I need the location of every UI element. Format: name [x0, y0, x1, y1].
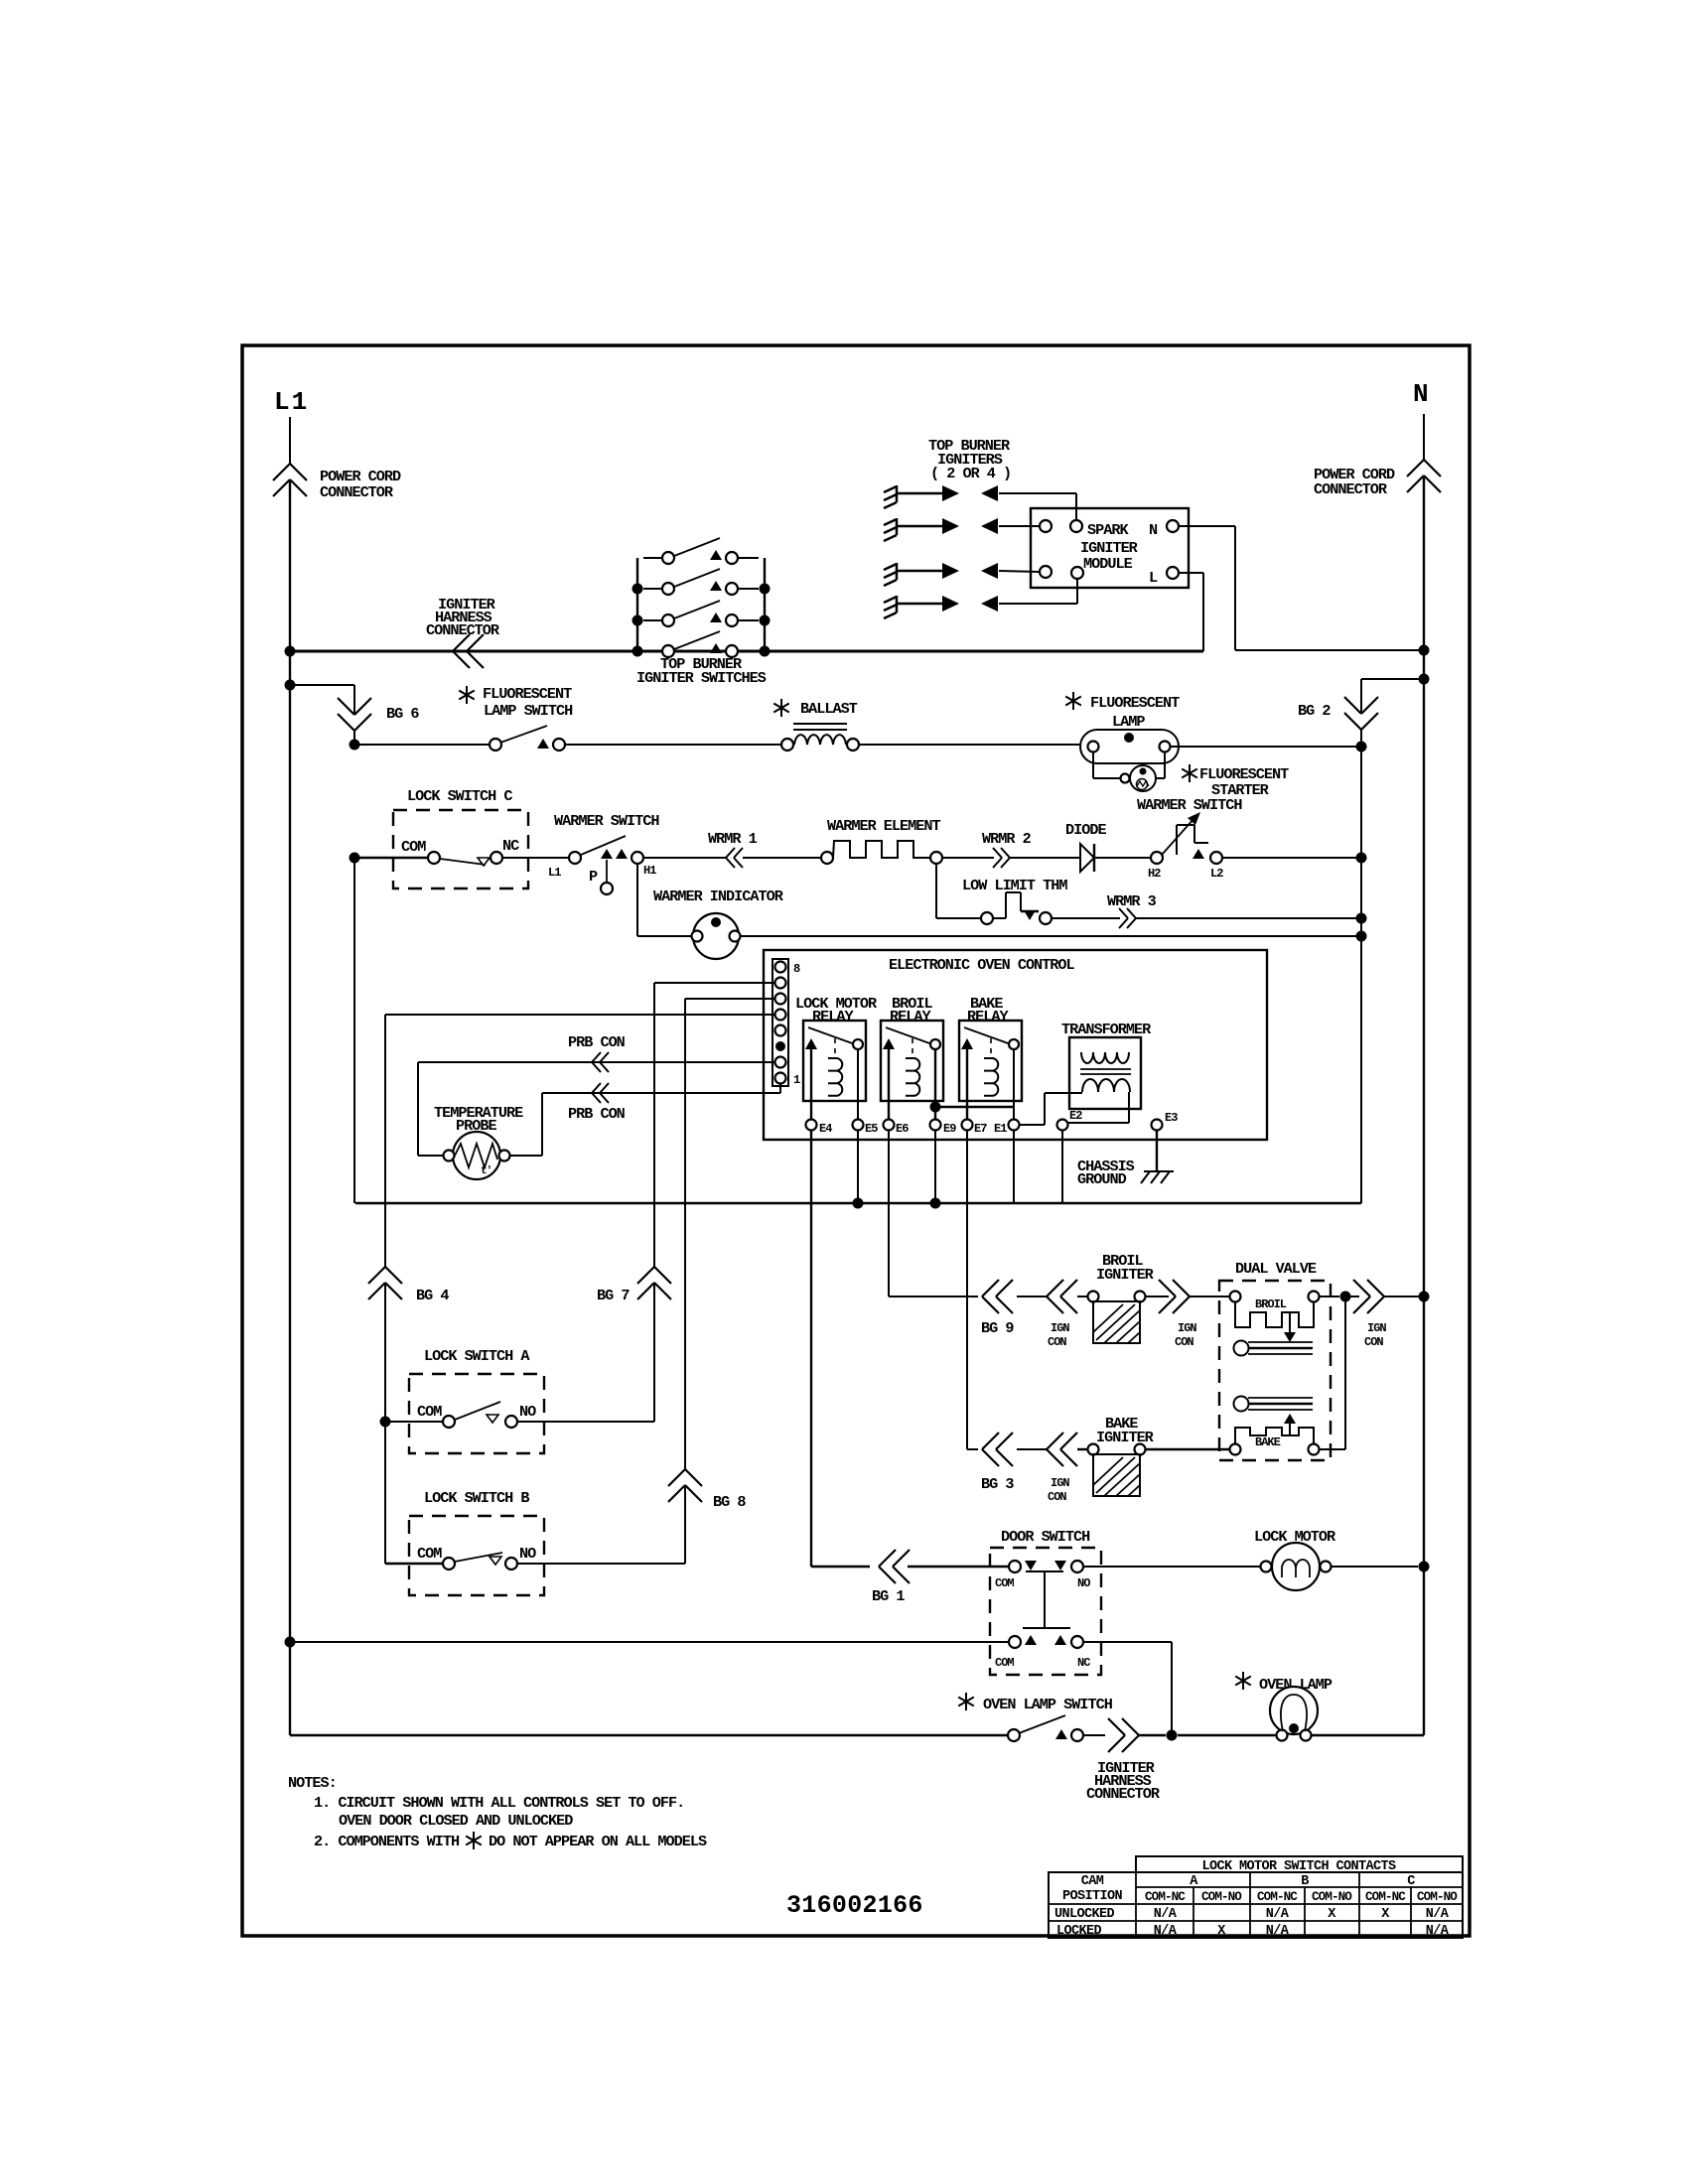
- label oven lamp: [1235, 1672, 1333, 1694]
- fluorescent starter: [1093, 752, 1165, 791]
- svg-text:CAM: CAM: [1081, 1874, 1104, 1889]
- wire E9 to N bus: [930, 1131, 941, 1209]
- svg-text:E5: E5: [865, 1122, 878, 1136]
- svg-text:CON: CON: [1048, 1335, 1066, 1349]
- wire indicator to N collector: [741, 931, 1367, 942]
- wire L1 rail bottom to oven lamp switch: [290, 1734, 1008, 1736]
- svg-text:CON: CON: [1048, 1490, 1066, 1504]
- svg-text:LOCK SWITCH A: LOCK SWITCH A: [424, 1347, 530, 1365]
- wire H1 down to warmer indicator: [637, 864, 692, 936]
- dual valve broil outlet: [1234, 1341, 1314, 1356]
- svg-text:LOCKED: LOCKED: [1056, 1924, 1102, 1939]
- wire strip pin7 to BG7 rail: [654, 983, 774, 1422]
- svg-text:WARMER INDICATOR: WARMER INDICATOR: [653, 887, 784, 905]
- svg-text:DOOR SWITCH: DOOR SWITCH: [1001, 1528, 1090, 1546]
- svg-text:IGNITER: IGNITER: [1096, 1266, 1155, 1284]
- wire element junction down to low limit: [936, 864, 981, 918]
- wire low limit to WRMR3: [1052, 917, 1120, 919]
- svg-text:BAKE: BAKE: [1255, 1435, 1281, 1449]
- fluorescent lamp: [1080, 730, 1179, 763]
- wire E6 down to BG9: [889, 1131, 978, 1297]
- wire WRMR3 to N collector: [1136, 913, 1367, 924]
- wire N right vertical rail: [1423, 414, 1425, 1735]
- door switch mechanical link: [1023, 1571, 1070, 1628]
- ballast (coil): [781, 724, 1079, 751]
- svg-text:UNLOCKED: UNLOCKED: [1054, 1907, 1115, 1922]
- label BG 3: [981, 1475, 1014, 1493]
- svg-text:COM-NO: COM-NO: [1417, 1890, 1458, 1904]
- wire E7 down to BG3: [967, 1131, 978, 1449]
- svg-text:GROUND: GROUND: [1077, 1170, 1127, 1188]
- svg-text:WARMER SWITCH: WARMER SWITCH: [554, 812, 659, 830]
- wire lock C COM drop to N bus: [353, 858, 355, 1203]
- label BG 1: [872, 1587, 905, 1605]
- connector BG 7: [637, 1267, 671, 1299]
- warmer indicator lamp: [692, 913, 741, 959]
- connector IGN CON broil-right: [1146, 1280, 1190, 1313]
- label IGN CON valve-right: [1364, 1321, 1386, 1349]
- svg-text:ELECTRONIC OVEN CONTROL: ELECTRONIC OVEN CONTROL: [889, 956, 1075, 974]
- svg-text:E1: E1: [994, 1122, 1007, 1136]
- broil relay K2: [881, 1021, 943, 1101]
- wire connector to junction: [1139, 1730, 1277, 1741]
- svg-text:COM: COM: [417, 1545, 442, 1563]
- connector BG 1: [879, 1550, 910, 1583]
- wire L2 to N collector: [1222, 853, 1367, 864]
- wire lamp to BG2 node: [1171, 746, 1361, 748]
- lock switch C enclosure: [393, 810, 528, 888]
- svg-text:2. COMPONENTS WITH: 2. COMPONENTS WITH: [314, 1833, 460, 1850]
- connector BG 3: [982, 1433, 1013, 1466]
- label BG 6: [386, 705, 419, 723]
- svg-text:LOCK SWITCH B: LOCK SWITCH B: [424, 1489, 529, 1507]
- wire BG2 down to N collector: [1356, 730, 1367, 1203]
- svg-text:N/A: N/A: [1426, 1907, 1450, 1922]
- svg-text:L1: L1: [548, 866, 561, 880]
- wire E4 down to BG1: [811, 1131, 870, 1567]
- label dual valve: [1235, 1260, 1317, 1278]
- connector BG 2: [1344, 697, 1378, 730]
- lock switch C contacts: [350, 837, 570, 866]
- svg-text:BG 4: BG 4: [416, 1287, 449, 1304]
- top burner igniter electrode y=575: [884, 563, 897, 586]
- label lock motor: [1254, 1528, 1336, 1546]
- svg-text:P: P: [589, 868, 598, 886]
- warmer element (resistive): [821, 841, 942, 864]
- svg-text:CONNECTOR: CONNECTOR: [426, 621, 500, 639]
- svg-text:( 2 OR 4 ): ( 2 OR 4 ): [930, 465, 1011, 482]
- lock switch A contacts: [380, 1402, 655, 1428]
- wire H1 to WRMR1: [643, 857, 726, 859]
- wire module L pin to L1 bus: [1179, 573, 1203, 651]
- label low limit thm: [962, 877, 1067, 894]
- svg-text:BROIL: BROIL: [1255, 1297, 1287, 1311]
- label fluorescent lamp switch: [459, 685, 573, 720]
- bake relay K3: [959, 1021, 1022, 1101]
- wire N rail to BG2: [1361, 674, 1430, 715]
- svg-text:PRB CON: PRB CON: [568, 1033, 626, 1051]
- wire oven lamp to N rail corner: [1312, 1734, 1424, 1736]
- label IGN CON broil-right: [1175, 1321, 1196, 1349]
- wire E1 to transformer secondary: [1020, 1093, 1082, 1125]
- svg-text:WARMER ELEMENT: WARMER ELEMENT: [827, 817, 940, 835]
- temperature probe RT1: [444, 1132, 510, 1179]
- connector PRB CON upper: [592, 1052, 609, 1072]
- svg-text:BALLAST: BALLAST: [800, 700, 858, 718]
- node BG6 junction: [350, 740, 360, 751]
- svg-text:N/A: N/A: [1154, 1907, 1178, 1922]
- lock motor M1: [1261, 1543, 1332, 1590]
- label warmer indicator: [653, 887, 784, 905]
- svg-text:1. CIRCUIT SHOWN WITH ALL CONT: 1. CIRCUIT SHOWN WITH ALL CONTROLS SET T…: [314, 1794, 684, 1812]
- spark igniter module U1: [1031, 508, 1189, 588]
- wire igniter row2 to module: [999, 525, 1040, 527]
- label warmer switch right: [1137, 796, 1242, 814]
- svg-text:N: N: [1149, 521, 1158, 539]
- label IGN CON bake-left: [1048, 1476, 1069, 1504]
- label IGN CON broil-left: [1048, 1321, 1069, 1349]
- svg-text:CONNECTOR: CONNECTOR: [1314, 480, 1388, 498]
- label BG 7: [597, 1287, 630, 1304]
- label oven lamp switch: [958, 1693, 1113, 1713]
- label bake relay: [967, 995, 1009, 1025]
- label top burner igniters: [928, 437, 1011, 482]
- dual valve enclosure: [1219, 1281, 1331, 1460]
- svg-text:OVEN DOOR CLOSED AND UNLOCKED: OVEN DOOR CLOSED AND UNLOCKED: [339, 1812, 573, 1830]
- door switch lower contacts (COM/NC): [995, 1635, 1090, 1670]
- label door switch: [1001, 1528, 1090, 1546]
- svg-text:IGNITER SWITCHES: IGNITER SWITCHES: [636, 669, 767, 687]
- wire E1 to N bus: [1013, 1131, 1015, 1203]
- label transformer: [1061, 1021, 1152, 1038]
- lock switch A enclosure: [409, 1374, 544, 1453]
- wire lock motor to N rail: [1332, 1562, 1430, 1572]
- svg-text:RELAY: RELAY: [967, 1008, 1009, 1025]
- wire igniter row3 to module: [999, 571, 1040, 572]
- svg-text:COM: COM: [417, 1403, 442, 1421]
- label lock switch B: [424, 1489, 529, 1507]
- bake igniter element: [1088, 1444, 1146, 1497]
- svg-text:MODULE: MODULE: [1083, 555, 1133, 573]
- svg-text:L: L: [1149, 569, 1158, 587]
- svg-text:WRMR 2: WRMR 2: [982, 830, 1032, 848]
- svg-text:NC: NC: [502, 837, 519, 855]
- wire strip pin1 to PRB CON (lower): [509, 1084, 780, 1156]
- connector BG 6: [338, 698, 371, 731]
- wire bake igniter to dual valve: [1146, 1448, 1229, 1450]
- svg-text:N/A: N/A: [1266, 1924, 1290, 1939]
- wire E2 to N bus: [1061, 1131, 1063, 1203]
- svg-text:WRMR 1: WRMR 1: [708, 830, 758, 848]
- svg-text:BG 2: BG 2: [1298, 702, 1331, 720]
- svg-text:BG 8: BG 8: [713, 1493, 746, 1511]
- svg-text:WARMER SWITCH: WARMER SWITCH: [1137, 796, 1242, 814]
- svg-text:COM: COM: [995, 1576, 1014, 1590]
- wire module N pin to N rail: [1179, 526, 1430, 656]
- top burner igniter spark gap y=608: [897, 596, 998, 612]
- svg-text:LOCK SWITCH C: LOCK SWITCH C: [407, 787, 512, 805]
- svg-text:L1: L1: [274, 387, 309, 417]
- label BG 4: [416, 1287, 449, 1304]
- svg-text:H2: H2: [1148, 867, 1161, 881]
- label PRB CON upper: [568, 1033, 626, 1051]
- svg-text:COM-NC: COM-NC: [1145, 1890, 1186, 1904]
- svg-text:1: 1: [793, 1073, 800, 1087]
- svg-text:FLUORESCENT: FLUORESCENT: [483, 685, 572, 703]
- label WRMR 3: [1107, 892, 1157, 910]
- fluorescent lamp switch S1: [354, 726, 781, 751]
- label broil relay: [890, 995, 932, 1025]
- lock motor switch contacts table: [1049, 1856, 1463, 1939]
- svg-text:H1: H1: [643, 864, 656, 878]
- connector IGN CON valve-right: [1353, 1280, 1384, 1313]
- power cord connector (N): [1407, 460, 1441, 492]
- label ballast: [773, 699, 857, 718]
- label WRMR 1: [708, 830, 758, 848]
- label top burner igniter switches: [636, 655, 767, 687]
- top burner igniter spark gap y=575: [897, 563, 998, 579]
- label igniter harness connector bottom: [1086, 1759, 1161, 1803]
- terminal E7: [962, 1101, 988, 1136]
- door switch enclosure: [990, 1548, 1101, 1675]
- low limit thermostat: [981, 892, 1052, 924]
- connector BG 9: [982, 1280, 1013, 1313]
- wire door switch NO to lock motor: [1083, 1566, 1260, 1568]
- label bake igniter: [1096, 1415, 1155, 1446]
- svg-text:DUAL VALVE: DUAL VALVE: [1235, 1260, 1317, 1278]
- wire strip pin2 to PRB CON (upper): [418, 1062, 774, 1156]
- svg-text:N/A: N/A: [1154, 1924, 1178, 1939]
- svg-text:E4: E4: [819, 1122, 832, 1136]
- connector WRMR 2: [993, 848, 1010, 868]
- label igniter harness connector top: [426, 596, 500, 639]
- svg-text:SPARK: SPARK: [1087, 521, 1129, 539]
- label power cord connector right: [1314, 466, 1395, 498]
- label lock switch C: [407, 787, 512, 805]
- wire L1 rail to door switch lower COM: [285, 1637, 1010, 1648]
- svg-text:8: 8: [793, 962, 800, 976]
- svg-text:IGN: IGN: [1051, 1321, 1069, 1335]
- lock switch B enclosure: [409, 1516, 544, 1595]
- svg-text:IGN: IGN: [1178, 1321, 1196, 1335]
- svg-text:BG 6: BG 6: [386, 705, 419, 723]
- top burner igniter electrode y=530: [884, 518, 897, 541]
- svg-text:FLUORESCENT: FLUORESCENT: [1090, 694, 1180, 712]
- electronic oven control box: [764, 950, 1267, 1140]
- label lock switch A: [424, 1347, 530, 1365]
- svg-text:BG 3: BG 3: [981, 1475, 1014, 1493]
- connector WRMR 3: [1119, 908, 1136, 928]
- svg-text:NO: NO: [1077, 1576, 1090, 1590]
- svg-text:E2: E2: [1069, 1109, 1082, 1123]
- connector IGN CON bake-left: [1047, 1433, 1077, 1466]
- svg-text:PROBE: PROBE: [456, 1117, 496, 1135]
- label warmer switch left: [554, 812, 659, 830]
- label BG 8: [713, 1493, 746, 1511]
- wire to broil igniter: [1017, 1296, 1088, 1297]
- svg-text:POSITION: POSITION: [1062, 1889, 1123, 1904]
- terminal E1: [994, 1049, 1020, 1136]
- svg-text:t': t': [481, 1165, 491, 1177]
- svg-text:N: N: [1413, 379, 1430, 409]
- svg-text:E3: E3: [1165, 1111, 1178, 1125]
- connector PRB CON lower: [592, 1083, 609, 1103]
- svg-text:BG 7: BG 7: [597, 1287, 630, 1304]
- svg-text:COM: COM: [995, 1656, 1014, 1670]
- connector BG 4: [368, 1267, 402, 1299]
- warmer switch (L1/P/H1): [548, 836, 656, 894]
- label fluorescent starter: [1182, 764, 1289, 799]
- node L1 label: [274, 387, 309, 417]
- svg-text:RELAY: RELAY: [890, 1008, 931, 1025]
- wire door switch NC drop: [1083, 1642, 1172, 1735]
- svg-text:CON: CON: [1175, 1335, 1193, 1349]
- igniter harness connector (top): [453, 634, 484, 668]
- label BG 9: [981, 1319, 1014, 1337]
- wire L1 left vertical rail: [289, 417, 291, 1735]
- terminal E5: [853, 1049, 879, 1136]
- transformer T1: [1069, 1037, 1141, 1109]
- svg-text:316002166: 316002166: [786, 1891, 923, 1920]
- label lock motor relay: [795, 995, 878, 1025]
- svg-text:COM-NO: COM-NO: [1312, 1890, 1352, 1904]
- label broil igniter: [1096, 1252, 1155, 1284]
- terminal E2 and secondary return: [1057, 1092, 1130, 1131]
- EOC connector strip P1: [772, 959, 800, 1087]
- svg-text:COM: COM: [401, 838, 426, 856]
- svg-text:LAMP SWITCH: LAMP SWITCH: [484, 702, 573, 720]
- svg-text:TRANSFORMER: TRANSFORMER: [1061, 1021, 1152, 1038]
- power cord connector (L1): [273, 464, 307, 496]
- svg-text:COM-NO: COM-NO: [1201, 1890, 1242, 1904]
- svg-text:NC: NC: [1077, 1656, 1090, 1670]
- node N label: [1413, 379, 1430, 409]
- label temperature probe: [434, 1104, 523, 1135]
- wire to bake igniter: [1017, 1448, 1088, 1450]
- svg-text:NOTES:: NOTES:: [288, 1774, 337, 1792]
- label PRB CON lower: [568, 1105, 626, 1123]
- terminal E6: [884, 1101, 910, 1136]
- svg-text:WRMR 3: WRMR 3: [1107, 892, 1157, 910]
- svg-text:BG 9: BG 9: [981, 1319, 1014, 1337]
- terminal E9 and broil contact link: [930, 1049, 1015, 1136]
- svg-text:OVEN LAMP SWITCH: OVEN LAMP SWITCH: [983, 1696, 1113, 1713]
- svg-text:PRB CON: PRB CON: [568, 1105, 626, 1123]
- top burner igniter spark gap y=497: [897, 485, 998, 501]
- svg-text:NO: NO: [519, 1403, 536, 1421]
- dual valve bake coil: [1230, 1428, 1320, 1455]
- connector WRMR 1: [726, 848, 743, 868]
- svg-text:CON: CON: [1364, 1335, 1383, 1349]
- wire strip pin5 to lock switch rail: [385, 1015, 774, 1564]
- diode D1: [1080, 844, 1151, 872]
- label fluorescent lamp: [1065, 692, 1180, 731]
- svg-text:B: B: [1301, 1874, 1309, 1889]
- svg-text:BG 1: BG 1: [872, 1587, 905, 1605]
- svg-text:E7: E7: [974, 1122, 987, 1136]
- part number 316002166: [786, 1891, 923, 1920]
- svg-text:DO NOT APPEAR ON ALL MODELS: DO NOT APPEAR ON ALL MODELS: [489, 1833, 707, 1850]
- wire BG6 branch from L1 rail: [285, 680, 355, 746]
- notes text: [288, 1774, 707, 1850]
- wire IGN CON to dual valve broil: [1190, 1296, 1229, 1297]
- svg-text:COM-NC: COM-NC: [1257, 1890, 1298, 1904]
- svg-text:NO: NO: [519, 1545, 536, 1563]
- svg-text:DIODE: DIODE: [1065, 821, 1106, 839]
- chassis ground symbol: [1141, 1131, 1174, 1183]
- wire top L1 bus: [285, 646, 1204, 657]
- wire N return bus: [355, 1202, 1361, 1204]
- label electronic oven control: [889, 956, 1075, 974]
- connector IGN CON broil-left: [1047, 1280, 1077, 1313]
- top burner igniter switches bank: [632, 538, 771, 657]
- wire element to WRMR2: [942, 857, 994, 859]
- svg-text:E6: E6: [896, 1122, 909, 1136]
- connector BG 8: [668, 1469, 702, 1502]
- svg-text:L2: L2: [1210, 867, 1223, 881]
- igniter harness connector (bottom): [1108, 1718, 1139, 1752]
- svg-text:N/A: N/A: [1426, 1924, 1450, 1939]
- lock switch B contacts: [385, 1545, 685, 1570]
- svg-text:CONNECTOR: CONNECTOR: [320, 483, 394, 501]
- svg-text:IGNITER: IGNITER: [1096, 1429, 1155, 1446]
- dual valve broil coil: [1230, 1292, 1320, 1343]
- warmer switch right (thermostat H2/L2): [1148, 812, 1223, 881]
- top burner igniter electrode y=608: [884, 596, 897, 618]
- lock motor relay K1: [803, 1021, 866, 1101]
- top burner igniter electrode y=497: [884, 485, 897, 508]
- wire WRMR2 to diode: [1010, 857, 1079, 859]
- wire valve return to N rail: [1384, 1292, 1430, 1302]
- oven lamp LP1: [1270, 1687, 1318, 1741]
- wire WRMR1 to warmer element: [743, 857, 821, 859]
- terminal E3: [1152, 1111, 1179, 1131]
- top burner igniter spark gap y=530: [897, 518, 998, 534]
- svg-text:IGN: IGN: [1051, 1476, 1069, 1490]
- terminal E4: [806, 1101, 833, 1136]
- broil igniter element: [1088, 1292, 1146, 1344]
- wire dual valve returns: [1320, 1292, 1359, 1450]
- wire igniter row4 to module: [999, 579, 1077, 604]
- svg-text:E9: E9: [943, 1122, 956, 1136]
- page border frame: [242, 345, 1470, 1936]
- svg-text:LAMP: LAMP: [1112, 713, 1145, 731]
- svg-text:IGN: IGN: [1367, 1321, 1386, 1335]
- svg-text:COM-NC: COM-NC: [1365, 1890, 1406, 1904]
- label BG 2: [1298, 702, 1331, 720]
- label WRMR 2: [982, 830, 1032, 848]
- svg-text:RELAY: RELAY: [812, 1008, 854, 1025]
- dual valve bake outlet: [1234, 1397, 1314, 1436]
- wire igniter row1 to module: [999, 493, 1076, 520]
- svg-text:C: C: [1407, 1874, 1415, 1889]
- label diode: [1065, 821, 1106, 839]
- wire E5 to N bus: [853, 1131, 864, 1209]
- svg-text:N/A: N/A: [1266, 1907, 1290, 1922]
- door switch upper contacts (COM/NO): [908, 1561, 1090, 1590]
- svg-text:CONNECTOR: CONNECTOR: [1086, 1785, 1161, 1803]
- wire strip pin6 to BG8 rail: [685, 999, 774, 1564]
- label power cord connector left: [320, 468, 401, 501]
- oven lamp switch S2: [1008, 1715, 1105, 1741]
- svg-text:LOW LIMIT THM: LOW LIMIT THM: [962, 877, 1067, 894]
- label warmer element: [827, 817, 940, 835]
- label chassis ground: [1077, 1158, 1135, 1188]
